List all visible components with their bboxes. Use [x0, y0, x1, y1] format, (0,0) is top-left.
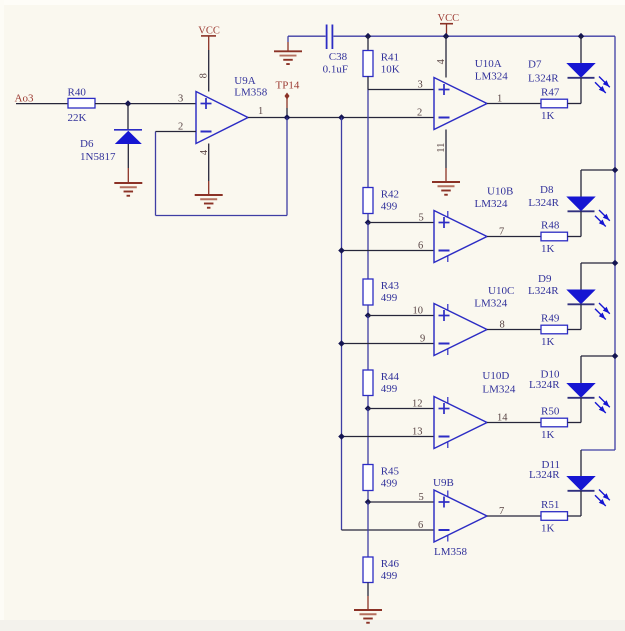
wire: divider 502 to R46 — [367, 502, 369, 557]
wire: top rail left segment (ground to C38) — [288, 35, 326, 37]
ground: bottom of divider — [354, 610, 382, 623]
svg-text:R43: R43 — [381, 280, 400, 292]
pin 6 label (U10B -) — [418, 241, 423, 252]
wire: rail stub to D10 — [581, 356, 615, 384]
svg-text:Ao3: Ao3 — [15, 93, 34, 105]
svg-text:LM324: LM324 — [475, 198, 509, 210]
svg-text:5: 5 — [419, 213, 424, 224]
junction: divider tap 502 — [365, 499, 372, 506]
svg-text:2: 2 — [417, 108, 422, 119]
pin 1 label (U9A output) — [258, 106, 263, 117]
resistor R48 1K — [541, 220, 568, 255]
pin 4 label — [199, 149, 210, 155]
svg-text:11: 11 — [436, 143, 447, 153]
svg-text:LM324: LM324 — [474, 298, 508, 310]
pin 7 label (U10B output) — [499, 227, 504, 238]
resistor R40 22K — [68, 87, 96, 124]
wire: U10D output to resistor — [487, 422, 541, 424]
pin 2 label (U9A inverting) — [178, 122, 183, 133]
pin 5 label (U9B +) — [419, 492, 424, 503]
svg-text:D8: D8 — [540, 184, 554, 196]
wire: D8 cathode down to resistor — [580, 212, 582, 237]
svg-text:6: 6 — [418, 241, 423, 252]
junction: rail / D7 — [578, 33, 585, 40]
junction: rail / R41 — [365, 33, 372, 40]
svg-text:1K: 1K — [541, 110, 555, 122]
pin 4 wire (U10A V+) — [445, 36, 447, 77]
pin 4 label (U10A) — [436, 58, 447, 64]
pin 4 wire (U9A V-) — [208, 144, 210, 196]
wire: R42 to tap — [367, 214, 369, 223]
svg-text:5: 5 — [419, 492, 424, 503]
pin 5 label (U10B +) — [419, 213, 424, 224]
wire: - input row to U10C — [342, 343, 435, 345]
svg-text:L324R: L324R — [529, 469, 560, 481]
pin 12 label (U10D +) — [412, 399, 423, 410]
junction: rail / VCC / U10A pin4 — [443, 33, 450, 40]
svg-text:499: 499 — [381, 478, 398, 490]
svg-text:6: 6 — [418, 520, 423, 531]
junction: bus at U10C - input — [338, 340, 345, 347]
wire: R40 to U9A pin 3 — [95, 103, 196, 105]
wire: U9B output to resistor — [487, 515, 541, 517]
svg-text:L324R: L324R — [529, 379, 560, 391]
wire: U10A output to resistor — [487, 103, 541, 105]
pin 7 label (U9B output) — [499, 506, 504, 517]
svg-text:U10D: U10D — [482, 370, 509, 382]
svg-text:U10C: U10C — [488, 285, 514, 297]
LED D11 emission arrows — [595, 490, 610, 507]
svg-text:D6: D6 — [80, 138, 94, 150]
svg-text:10: 10 — [413, 306, 424, 317]
wire: R45 to tap — [367, 491, 369, 503]
net label Ao3 — [15, 93, 34, 105]
junction: TP14 on output wire — [284, 108, 291, 121]
svg-text:U9B: U9B — [433, 477, 454, 489]
op-amp U10D LM324 — [434, 370, 516, 449]
ground: below U10A — [432, 182, 460, 195]
wire: R50 to LED column — [568, 422, 582, 424]
svg-text:L324R: L324R — [528, 285, 559, 297]
svg-text:R40: R40 — [68, 87, 87, 99]
op-amp U10B LM324 — [434, 185, 513, 262]
LED D10 emission arrows — [595, 397, 610, 414]
resistor R51 1K — [541, 499, 568, 534]
resistor R42 499 — [363, 188, 399, 214]
wire: + input row to U10D — [368, 408, 434, 410]
pin 1 label (U10A output) — [497, 94, 502, 105]
wire: divider 89.5 to R42 — [367, 90, 369, 188]
svg-text:VCC: VCC — [438, 13, 460, 24]
svg-text:4: 4 — [199, 149, 210, 155]
wire: - input row to U10B — [342, 250, 435, 252]
wire: R43 to tap — [367, 305, 369, 316]
svg-text:D7: D7 — [528, 59, 542, 71]
junction: bus at U10D - input — [338, 433, 345, 440]
diode D6 1N5817 (cathode up) — [80, 130, 142, 163]
resistor R44 499 — [363, 370, 400, 396]
wire: rail stub to D8 — [581, 170, 615, 197]
junction: rail at D8 stub — [612, 167, 619, 174]
wire: R44 to tap — [367, 396, 369, 409]
svg-text:1K: 1K — [541, 336, 555, 348]
svg-text:R47: R47 — [541, 87, 560, 99]
LED D9 L324R — [528, 273, 595, 304]
pin 10 label (U10C +) — [413, 306, 424, 317]
wire: feedback loop U9A output to pin 2 — [156, 118, 288, 216]
pin 8 wire (U9A V+) — [208, 50, 210, 92]
wire: D11 cathode down to resistor — [580, 491, 582, 516]
wire: + input row to U10C — [368, 315, 434, 317]
svg-text:8: 8 — [198, 73, 209, 78]
wire: bus to U9B pin 6 — [342, 529, 435, 531]
svg-text:R44: R44 — [381, 371, 400, 383]
junction: rail at D10 stub — [612, 353, 619, 360]
wire: Ao3 input to R40 — [16, 103, 68, 105]
svg-text:R50: R50 — [541, 406, 560, 418]
LED D7 L324R — [528, 59, 595, 85]
pin 9 label (U10C -) — [420, 334, 425, 345]
resistor R50 1K — [541, 406, 568, 441]
svg-text:L324R: L324R — [528, 73, 559, 85]
svg-text:3: 3 — [178, 94, 183, 105]
wire: + input row to U9B — [368, 501, 434, 503]
pin 8 label (U10C output) — [500, 320, 505, 331]
wire: R51 to LED column — [568, 515, 582, 517]
svg-text:LM324: LM324 — [475, 70, 509, 82]
op-amp U9A LM358 — [196, 75, 268, 144]
svg-text:U9A: U9A — [234, 75, 255, 87]
ground: below D6 — [114, 183, 142, 196]
svg-text:U10A: U10A — [475, 58, 502, 70]
wire: divider 222.5 to R43 — [367, 223, 369, 280]
wire: R47 to LED column — [568, 103, 582, 105]
junction: divider tap 408.5 — [365, 405, 372, 412]
junction: divider tap 222.5 — [365, 219, 372, 226]
wire: D6 anode to ground — [127, 144, 129, 183]
resistor R49 1K — [541, 313, 568, 348]
svg-text:1K: 1K — [541, 523, 555, 535]
wire: top rail right segment (C38 to right corner) — [333, 35, 615, 37]
wire: rail to D7 — [580, 36, 582, 63]
wire: - input row to U10D — [342, 436, 435, 438]
wire: + input row to U10A — [368, 89, 434, 91]
svg-text:1: 1 — [258, 106, 263, 117]
pin 11 label (U10A) — [436, 143, 447, 153]
resistor R43 499 — [363, 279, 400, 305]
svg-text:U10B: U10B — [487, 185, 513, 197]
junction: bus at U10B - input — [338, 247, 345, 254]
ground: top-left power ground — [274, 36, 302, 64]
wire: U10B output to resistor — [487, 236, 541, 238]
resistor R47 1K — [541, 87, 568, 122]
svg-text:R45: R45 — [381, 466, 400, 478]
ground: below U9A — [195, 195, 223, 208]
svg-text:22K: 22K — [68, 112, 87, 124]
svg-text:D9: D9 — [538, 273, 552, 285]
wire: D10 cathode down to resistor — [580, 398, 582, 423]
capacitor C38 — [323, 25, 348, 76]
resistor R41 10K — [363, 36, 400, 89]
wire: divider 315.5 to R44 — [367, 316, 369, 371]
svg-text:1K: 1K — [541, 429, 555, 441]
svg-text:R46: R46 — [381, 558, 400, 570]
wire: divider 408.5 to R45 — [367, 409, 369, 465]
LED D8 L324R — [528, 184, 594, 211]
power port VCC above U9A pin 8 — [198, 26, 220, 50]
LED D8 emission arrows — [595, 210, 610, 227]
svg-text:499: 499 — [381, 383, 398, 395]
svg-text:C38: C38 — [329, 51, 348, 63]
op-amp U10A LM324 — [434, 58, 508, 130]
LED D7 emission arrows — [595, 77, 610, 94]
LED D9 emission arrows — [595, 303, 610, 320]
svg-text:R42: R42 — [381, 189, 399, 201]
wire: U10C output to resistor — [487, 329, 541, 331]
op-amp U10C LM324 — [434, 285, 514, 356]
junction: output wire / comparator bus tee — [338, 114, 345, 121]
svg-text:1N5817: 1N5817 — [80, 151, 116, 163]
svg-text:L324R: L324R — [528, 197, 559, 209]
svg-text:R41: R41 — [381, 52, 399, 64]
pin 3 label (U10A +) — [418, 80, 423, 91]
wire: U9A output to U10A pin 2 — [248, 117, 434, 119]
svg-text:9: 9 — [420, 334, 425, 345]
pin 11 wire (U10A V-) — [445, 130, 447, 183]
wire: R48 to LED column — [568, 236, 582, 238]
svg-text:R51: R51 — [541, 499, 559, 511]
pin 8 label — [198, 73, 209, 78]
junction: rail at D9 stub — [612, 260, 619, 267]
wire: + input row to U10B — [368, 222, 434, 224]
svg-text:13: 13 — [412, 427, 423, 438]
svg-text:VCC: VCC — [198, 26, 220, 37]
svg-text:3: 3 — [418, 80, 423, 91]
test point TP14 — [276, 80, 300, 109]
wire: comparator bus vertical — [341, 118, 343, 531]
svg-text:LM358: LM358 — [234, 87, 267, 99]
svg-text:499: 499 — [381, 292, 398, 304]
junction: divider tap 315.5 — [365, 312, 372, 319]
resistor R45 499 — [363, 465, 400, 491]
wire: D7 cathode down to resistor — [580, 78, 582, 104]
wire: right rail vertical — [614, 36, 616, 450]
op-amp U9B LM358 — [433, 477, 487, 558]
svg-text:12: 12 — [412, 399, 423, 410]
resistor R46 499 — [363, 557, 400, 583]
wire: R46 to ground — [367, 583, 369, 611]
pin 14 label (U10D output) — [497, 413, 508, 424]
pin 13 label (U10D -) — [412, 427, 423, 438]
wire: rail stub to D9 — [581, 263, 615, 290]
pin 3 label (U9A non-inverting) — [178, 94, 183, 105]
svg-text:LM358: LM358 — [434, 546, 468, 558]
svg-text:R48: R48 — [541, 220, 560, 232]
pin 6 label (U9B -) — [418, 520, 423, 531]
svg-text:4: 4 — [436, 58, 447, 64]
svg-text:TP14: TP14 — [276, 80, 300, 92]
LED D11 L324R — [529, 459, 595, 491]
svg-text:LM324: LM324 — [482, 384, 516, 396]
wire: D9 cathode down to resistor — [580, 305, 582, 330]
junction: R40 / D6 node — [125, 100, 132, 107]
svg-text:1K: 1K — [541, 243, 555, 255]
power port VCC (top, feeds rail and U10A pin 4) — [438, 13, 460, 36]
svg-text:0.1uF: 0.1uF — [323, 64, 348, 76]
wire: R49 to LED column — [568, 329, 582, 331]
wire: rail corner into D11 — [581, 450, 615, 477]
svg-text:499: 499 — [381, 570, 398, 582]
svg-text:499: 499 — [381, 201, 398, 213]
svg-text:10K: 10K — [381, 64, 400, 76]
LED D10 L324R — [529, 369, 595, 398]
svg-text:R49: R49 — [541, 313, 560, 325]
pin 2 label (U10A -) — [417, 108, 422, 119]
wire: node down to D6 cathode — [127, 104, 129, 130]
